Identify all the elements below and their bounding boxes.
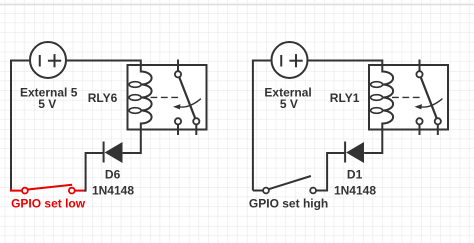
relay RLY6 NO contact xyxy=(193,118,199,124)
svg-text:1N4148: 1N4148 xyxy=(334,183,376,197)
relay RLY1 NO contact xyxy=(435,118,441,124)
svg-text:RLY1: RLY1 xyxy=(330,91,360,105)
svg-text:D6: D6 xyxy=(105,168,121,182)
relay RLY1 motion arrow xyxy=(421,99,443,107)
svg-text:5 V: 5 V xyxy=(38,97,56,111)
voltage source V1 xyxy=(30,42,66,78)
relay RLY1 NC contact xyxy=(416,118,422,124)
relay RLY6 body xyxy=(128,65,207,130)
svg-text:D1: D1 xyxy=(347,167,363,181)
wire: relay RLY1 coil bottom to diode D1 anode xyxy=(364,130,382,154)
diode D1 xyxy=(345,142,364,164)
relay RLY1 actuation dashed link xyxy=(392,96,422,98)
relay RLY1 body xyxy=(369,65,448,130)
relay RLY6 motion arrow xyxy=(179,99,201,107)
relay RLY1 coil L xyxy=(382,65,393,130)
relay RLY1 common contact xyxy=(416,71,422,77)
svg-text:5 V: 5 V xyxy=(280,97,298,111)
GPIO switch S1 (open, driven low) xyxy=(11,185,84,194)
svg-text:RLY6: RLY6 xyxy=(88,91,118,105)
wire: relay RLY6 coil bottom to diode D6 anode xyxy=(123,130,141,154)
voltage source V2 xyxy=(272,42,308,78)
svg-text:1N4148: 1N4148 xyxy=(92,183,134,197)
wire: source V1 right terminal to relay RLY6 coil top xyxy=(66,61,141,67)
relay RLY1 common pin stub xyxy=(419,60,421,71)
relay RLY1 bottom pin stubs xyxy=(419,125,421,135)
GPIO switch S2 (open, driven high) xyxy=(253,176,327,193)
wire: source V2 left terminal down to GPIO switch (right net) xyxy=(253,61,272,191)
relay RLY6 actuation dashed link xyxy=(151,96,181,98)
relay RLY6 common pin stub xyxy=(177,60,179,71)
relay RLY6 xyxy=(128,60,207,136)
relay RLY1 xyxy=(369,60,448,136)
wire: diode D6 cathode to GPIO switch right side xyxy=(84,153,104,191)
diode D6 xyxy=(104,142,123,164)
svg-text:GPIO set high: GPIO set high xyxy=(249,196,328,210)
wire: source V1 left terminal down to GPIO switch (left net) xyxy=(11,61,30,190)
relay RLY6 common contact xyxy=(175,71,181,77)
relay RLY6 coil L xyxy=(141,65,152,130)
relay RLY6 NC contact xyxy=(175,118,181,124)
svg-text:GPIO set low: GPIO set low xyxy=(11,196,86,210)
wire: diode D1 cathode to GPIO switch right side xyxy=(316,153,345,191)
relay RLY6 bottom pin stubs xyxy=(177,125,179,135)
wire: source V2 right terminal to relay RLY1 coil top xyxy=(308,61,383,67)
relay RLY1 switch blade xyxy=(421,77,437,118)
relay RLY6 switch blade xyxy=(179,77,195,118)
